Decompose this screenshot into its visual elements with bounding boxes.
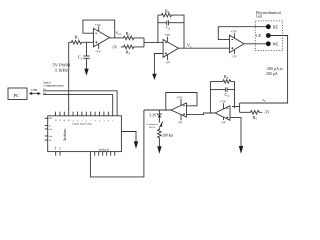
svg-text:8: 8 <box>77 120 79 121</box>
svg-text:13: 13 <box>55 119 57 121</box>
svg-text:200 kΩ: 200 kΩ <box>162 134 173 138</box>
wire U2 + input to ground <box>154 54 163 75</box>
wire node to U1 + input <box>87 41 94 43</box>
svg-text:-200 µA to: -200 µA to <box>266 67 283 71</box>
ground arrow under 200k <box>157 146 161 154</box>
label Iw <box>263 98 266 103</box>
-5V stub U3 <box>234 50 236 54</box>
wire input bar, R5 node <box>232 103 240 112</box>
resistor R4 feedback <box>158 13 184 17</box>
svg-text:-5V: -5V <box>112 45 118 49</box>
label Vo1 <box>116 30 123 36</box>
svg-text:Vin: Vin <box>60 147 62 150</box>
svg-text:Analog In: Analog In <box>99 148 110 151</box>
label Serial Communication <box>43 80 64 87</box>
ground arrow under C1 <box>84 69 88 76</box>
terminal CE <box>266 33 271 38</box>
svg-text:Iw: Iw <box>263 98 266 103</box>
svg-text:+5V: +5V <box>220 99 227 103</box>
feedback tap arrow to ADC <box>161 122 163 125</box>
capacitor C1 <box>83 42 89 69</box>
wire U4 feedback right rail <box>234 81 236 108</box>
svg-text:4: 4 <box>95 120 97 121</box>
wire U4 output to U5 + input <box>187 113 216 114</box>
svg-text:C3: C3 <box>225 92 230 98</box>
svg-text:Communication: Communication <box>43 84 64 88</box>
+5V stub U1 <box>98 26 100 31</box>
svg-text:RE: RE <box>273 25 279 29</box>
wire U2 output to U3 + input <box>179 47 230 49</box>
wire RE feedback loop to U3 inverting input <box>218 27 266 40</box>
+5V stub U4 <box>223 103 225 109</box>
svg-text:3.3V: 3.3V <box>149 113 156 117</box>
ground arrow right of Arduino <box>134 141 138 149</box>
svg-text:Vo: Vo <box>187 43 192 49</box>
svg-text:7: 7 <box>82 120 84 121</box>
label Analog In <box>99 148 110 151</box>
svg-text:-5V: -5V <box>232 54 238 58</box>
svg-text:3: 3 <box>99 120 101 121</box>
wire U4 feedback left rail <box>209 81 211 113</box>
op-amp U5 buffer (points left) <box>171 103 187 117</box>
wire 5V PWM vertical from Arduino pin to R1 <box>68 42 70 111</box>
resistor R5 to -5V <box>240 111 263 115</box>
svg-text:Gnd: Gnd <box>49 129 54 131</box>
svg-text:Arduino: Arduino <box>63 128 67 141</box>
wire U2 feedback left rail <box>157 15 159 42</box>
svg-text:6: 6 <box>86 120 88 121</box>
label 5V PWM 3.1kHz <box>53 63 71 73</box>
svg-text:-5V: -5V <box>165 61 171 65</box>
+5V stub U5 <box>180 99 182 105</box>
terminal RE <box>266 24 271 29</box>
label Arduino <box>63 128 67 141</box>
op-amp U4 transimpedance (points left) <box>215 106 230 121</box>
svg-text:+5V: +5V <box>231 30 238 34</box>
Arduino left pins <box>45 118 48 140</box>
electrochemical cell dashed box <box>255 21 282 51</box>
wire U1 feedback loop <box>83 20 115 38</box>
resistor R2 <box>124 36 145 40</box>
svg-text:C1: C1 <box>78 55 83 61</box>
ground arrow under U4 <box>239 146 243 154</box>
svg-text:Vo1: Vo1 <box>116 30 123 36</box>
wire bottom loop from U5 node to Arduino analog pin <box>90 110 143 177</box>
svg-text:Gnd: Gnd <box>55 147 57 150</box>
resistor R3 <box>121 45 144 49</box>
svg-text:+5V: +5V <box>164 33 171 37</box>
ground arrow under U2 <box>152 74 156 80</box>
svg-text:9: 9 <box>73 120 75 121</box>
wire U4 + input to ground <box>230 118 241 147</box>
zener diode 3.3V <box>158 110 162 115</box>
svg-text:Gnd: Gnd <box>49 136 54 138</box>
PC box <box>8 88 27 100</box>
-5V stub U4 <box>223 117 225 120</box>
label Electrochemical Cell <box>256 11 281 19</box>
svg-text:USB: USB <box>31 88 37 92</box>
svg-text:Cell: Cell <box>256 14 262 18</box>
wire Arduino gnd pin to ground <box>121 132 136 142</box>
Arduino bottom-left power pins <box>56 152 60 156</box>
svg-text:-5V: -5V <box>96 49 102 53</box>
capacitor C3 feedback <box>210 87 234 91</box>
resistor R6 feedback <box>210 80 234 83</box>
svg-text:R2: R2 <box>126 31 131 37</box>
op-amp U2 <box>163 40 178 58</box>
svg-text:C2: C2 <box>166 25 171 31</box>
terminal WE <box>266 41 271 46</box>
svg-text:-5V: -5V <box>177 121 183 125</box>
wire U2 feedback right rail <box>183 15 185 48</box>
svg-text:10: 10 <box>69 119 71 121</box>
svg-text:Digital Input/Output: Digital Input/Output <box>73 123 93 126</box>
resistor 200 kOhm vertical <box>158 127 162 146</box>
Arduino box <box>48 116 122 152</box>
svg-text:WE: WE <box>273 43 280 47</box>
op-amp U3 control amplifier <box>230 35 245 52</box>
svg-text:+5V: +5V <box>177 96 184 100</box>
svg-text:-5V: -5V <box>264 111 270 115</box>
label -5V for R3 <box>112 45 118 49</box>
label digital io row <box>73 123 93 126</box>
svg-text:5V: 5V <box>49 125 52 127</box>
label Vo <box>187 43 192 49</box>
svg-text:ADC0: ADC0 <box>149 126 156 129</box>
svg-text:CE: CE <box>256 34 262 38</box>
svg-text:1: 1 <box>108 120 110 121</box>
svg-text:+5V: +5V <box>95 23 102 27</box>
svg-text:RST: RST <box>49 118 54 120</box>
wire U3 output to WE dot <box>244 43 266 45</box>
+5V stub U3 <box>234 33 236 38</box>
svg-text:R5: R5 <box>253 115 258 121</box>
op-amp U1 voltage follower <box>94 28 110 46</box>
svg-text:2: 2 <box>104 120 106 121</box>
svg-text:200 µA: 200 µA <box>266 72 278 76</box>
wire U1 output <box>110 37 124 39</box>
svg-text:5: 5 <box>91 120 93 121</box>
Arduino top pins <box>56 112 118 116</box>
resistor R1 <box>69 41 87 45</box>
svg-text:R3: R3 <box>126 50 131 56</box>
-5V stub U5 <box>180 115 182 121</box>
-5V stub U1 <box>98 44 100 49</box>
svg-text:-5V: -5V <box>221 120 227 124</box>
svg-text:R6: R6 <box>224 74 229 80</box>
wire serial TX <box>43 89 46 91</box>
capacitor C2 feedback <box>158 20 184 25</box>
svg-text:PC: PC <box>14 93 20 98</box>
Arduino top pin numbers <box>55 119 114 121</box>
svg-text:11: 11 <box>64 119 66 121</box>
svg-text:0: 0 <box>113 120 115 121</box>
+5V stub U2 <box>167 37 169 42</box>
USB double arrow <box>31 93 40 95</box>
svg-text:12: 12 <box>60 119 62 121</box>
wire U5 feedback loop <box>166 93 197 111</box>
svg-text:3.1kHz: 3.1kHz <box>55 67 68 72</box>
svg-text:R1: R1 <box>75 35 80 41</box>
wire summing bar and to U2 inverting input <box>144 38 163 47</box>
Arduino bottom pins <box>95 152 115 156</box>
svg-text:Vin: Vin <box>49 140 52 142</box>
wire serial RX <box>43 93 46 95</box>
-5V stub U2 <box>167 55 169 60</box>
wire U5 output run to left corner <box>144 109 171 111</box>
wire CE to transimpedance input (Iw) <box>240 36 288 104</box>
label current range <box>266 67 283 76</box>
svg-text:R4: R4 <box>165 8 170 14</box>
